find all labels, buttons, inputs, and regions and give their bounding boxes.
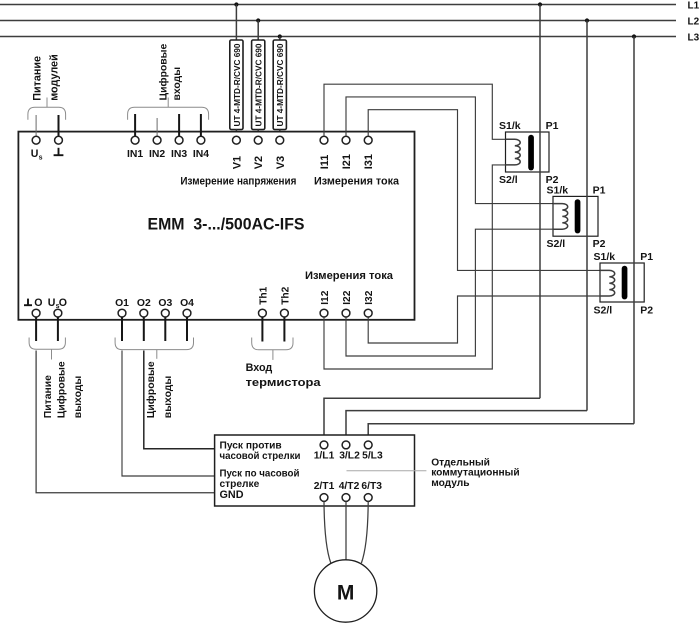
wire O1 to start clockwise [122, 351, 215, 477]
fuse F1 [230, 40, 243, 130]
svg-text:3/L2: 3/L2 [339, 450, 360, 461]
label Пуск против часовой стрелки [220, 440, 301, 462]
svg-text:O: O [34, 297, 42, 309]
svg-text:Th2: Th2 [280, 286, 291, 304]
wire stub IN3 [178, 114, 180, 136]
wire 6/T3 to motor [361, 501, 368, 563]
terminal IN3 [175, 136, 183, 144]
wire fuse F2 to V2 [257, 130, 259, 137]
terminal I31 [364, 136, 372, 144]
terminal O1 [118, 309, 126, 317]
terminal I22 [342, 309, 350, 317]
motor M1 [314, 560, 376, 622]
svg-text:IN1: IN1 [127, 149, 143, 160]
terminal ground [55, 136, 63, 144]
wire stub IN2 [156, 118, 158, 136]
terminal ground-out [32, 309, 40, 317]
svg-text:выходы: выходы [73, 376, 84, 419]
wire fuse F1 to V1 [235, 130, 237, 137]
terminal 3/L2 [342, 441, 350, 449]
brace group digital outputs [115, 338, 193, 350]
wire stub IN4 [200, 114, 202, 136]
svg-text:UT 4-MTD-R/CVC 690: UT 4-MTD-R/CVC 690 [232, 43, 242, 126]
wire stub ground terminal [58, 115, 60, 136]
svg-text:P1: P1 [546, 120, 559, 132]
svg-text:Измерения тока: Измерения тока [305, 270, 394, 282]
wire L3 primary drop through CT3 [633, 37, 635, 424]
wire stub Th2 [283, 317, 285, 342]
terminal Th1 [259, 309, 267, 317]
svg-text:Вход: Вход [246, 362, 273, 374]
wire fuse F3 to V3 [279, 130, 281, 137]
svg-text:S2/l: S2/l [499, 174, 518, 186]
svg-text:4/T2: 4/T2 [339, 481, 360, 492]
current transformer T3 box [600, 263, 644, 302]
svg-text:1/L1: 1/L1 [314, 450, 335, 461]
label Питание Цифровые выходы [43, 361, 84, 418]
svg-text:выходы: выходы [163, 376, 174, 419]
svg-text:V1: V1 [231, 156, 243, 169]
terminal 4/T2 [342, 494, 350, 502]
terminal IN4 [197, 136, 205, 144]
svg-text:I31: I31 [363, 154, 375, 169]
junction dot L3-CT tap [632, 34, 636, 38]
wire CT1 S2/l to I12 [324, 165, 506, 369]
svg-text:O2: O2 [137, 298, 151, 309]
wire stub O4 [186, 317, 188, 341]
svg-text:IN4: IN4 [193, 149, 209, 160]
svg-text:V3: V3 [275, 156, 287, 169]
svg-text:UT 4-MTD-R/CVC 690: UT 4-MTD-R/CVC 690 [275, 43, 285, 126]
fuse F2 [252, 40, 265, 130]
svg-text:I11: I11 [319, 155, 331, 170]
junction dot L1-fuse tap [234, 2, 238, 6]
svg-text:V2: V2 [253, 156, 265, 169]
svg-text:Отдельный: Отдельный [431, 457, 490, 468]
current transformer T2 box [553, 196, 598, 236]
svg-text:P1: P1 [640, 251, 653, 263]
wire stub O3 [164, 317, 166, 341]
relay module U1 EMM box [18, 132, 414, 320]
svg-text:5/L3: 5/L3 [362, 450, 383, 461]
svg-text:EMM 3-.../500AC-IFS: EMM 3-.../500AC-IFS [148, 215, 305, 234]
svg-text:P2: P2 [640, 304, 653, 316]
svg-text:S2/l: S2/l [594, 304, 613, 316]
svg-text:Питание: Питание [43, 375, 54, 418]
terminal V3 [276, 136, 284, 144]
svg-text:UT 4-MTD-R/CVC 690: UT 4-MTD-R/CVC 690 [254, 43, 264, 126]
fuse F3 [273, 40, 286, 130]
svg-text:IN2: IN2 [149, 149, 165, 160]
svg-text:S2/l: S2/l [547, 238, 566, 250]
brace group digital inputs [128, 107, 209, 120]
wire ground-out to GND [36, 351, 215, 493]
wire L2 primary to 3/L2 [346, 411, 587, 441]
svg-text:Th1: Th1 [258, 286, 269, 304]
wire L2 to fuse F2 [257, 21, 259, 41]
wire L1 primary drop through CT1 [539, 5, 541, 399]
junction dot L2-CT tap [585, 18, 589, 22]
label Цифровые выходы [145, 361, 174, 418]
wire CT3 S2/l to I32 [368, 296, 600, 343]
svg-text:термистора: термистора [246, 377, 322, 389]
wire CT2 S2/l to I22 [346, 229, 553, 356]
wire O2 to start counter-clockwise [144, 351, 215, 449]
wire stub O1 [121, 317, 123, 341]
junction dot L2-fuse tap [256, 18, 260, 22]
svg-text:O: O [59, 297, 67, 309]
wire L3 primary to 5/L3 [368, 424, 634, 441]
svg-text:Пуск против: Пуск против [220, 440, 282, 451]
terminal UsO [54, 309, 62, 317]
label Питание модулей [31, 54, 60, 101]
svg-text:Цифровые: Цифровые [145, 361, 157, 418]
svg-text:модуль: модуль [431, 478, 469, 489]
switching module K1 box [215, 435, 415, 506]
svg-text:GND: GND [220, 489, 244, 501]
terminal V2 [254, 136, 262, 144]
label ground symbol [54, 148, 64, 155]
leader line to module label [347, 470, 427, 472]
junction dot L1-CT tap [538, 2, 542, 6]
label Вход термистора [246, 362, 322, 389]
wire stub Th1 [261, 317, 263, 342]
label Пуск по часовой стрелке [220, 468, 300, 490]
wire 4/T2 to motor [345, 501, 347, 560]
current transformer T1 box [506, 132, 550, 172]
terminal IN1 [131, 136, 139, 144]
svg-text:P2: P2 [593, 238, 606, 250]
wire stub Us [35, 115, 37, 136]
brace group power supply terminals [28, 107, 66, 120]
terminal 2/T1 [320, 494, 328, 502]
svg-text:S1/k: S1/k [594, 251, 616, 263]
svg-text:IN3: IN3 [171, 149, 187, 160]
svg-text:U: U [48, 297, 56, 309]
brace group thermistor input [252, 338, 293, 350]
terminal I21 [342, 136, 350, 144]
wire L1 to fuse F1 [235, 5, 237, 41]
svg-text:Питание: Питание [31, 56, 43, 101]
junction dot L3-fuse tap [278, 34, 282, 38]
svg-text:I32: I32 [364, 290, 375, 304]
svg-text:M: M [337, 581, 355, 604]
svg-text:O3: O3 [158, 298, 172, 309]
wire L1 primary to 1/L1 [324, 398, 540, 441]
terminal 5/L3 [364, 441, 372, 449]
wire stub IN1 [134, 114, 136, 136]
terminal 6/T3 [364, 494, 372, 502]
svg-text:S1/k: S1/k [547, 185, 569, 197]
svg-text:Измерение напряжения: Измерение напряжения [180, 176, 296, 188]
svg-text:I12: I12 [320, 290, 331, 304]
terminal V1 [233, 136, 241, 144]
svg-text:Пуск по часовой: Пуск по часовой [220, 468, 300, 479]
terminal O4 [183, 309, 191, 317]
terminal O2 [140, 309, 148, 317]
svg-text:S1/k: S1/k [499, 120, 521, 132]
svg-text:P1: P1 [593, 185, 606, 197]
terminal I32 [364, 309, 372, 317]
label Цифровые входы [157, 43, 182, 100]
label Отдельный коммутационный модуль [431, 457, 519, 489]
wire stub O2 [143, 317, 145, 341]
wire I11 to CT1 S1/k [324, 84, 506, 139]
terminal O3 [161, 309, 169, 317]
wire I31 to CT3 S1/k [368, 110, 600, 271]
svg-text:L1: L1 [688, 0, 700, 11]
wire stub UsO [57, 317, 59, 341]
svg-text:L2: L2 [688, 16, 700, 27]
net L1 busbar [0, 4, 676, 6]
svg-text:I21: I21 [341, 154, 353, 169]
svg-text:6/T3: 6/T3 [361, 481, 382, 492]
svg-text:I22: I22 [342, 290, 353, 304]
svg-text:U: U [31, 148, 39, 160]
svg-text:часовой стрелки: часовой стрелки [220, 451, 301, 462]
wire L2 primary drop through CT2 [586, 21, 588, 411]
terminal IN2 [153, 136, 161, 144]
svg-text:Цифровые: Цифровые [157, 43, 169, 100]
svg-text:модулей: модулей [49, 54, 61, 101]
terminal Us [32, 136, 40, 144]
svg-text:входы: входы [172, 67, 183, 101]
svg-text:2/T1: 2/T1 [314, 481, 335, 492]
net L2 busbar [0, 20, 676, 22]
svg-text:s: s [39, 154, 43, 161]
svg-text:O1: O1 [115, 298, 129, 309]
net L3 busbar [0, 36, 676, 38]
wire 2/T1 to motor [324, 501, 331, 563]
wire I21 to CT2 S1/k [346, 97, 553, 204]
svg-text:Измерения тока: Измерения тока [314, 176, 400, 188]
label UsO [48, 297, 67, 310]
svg-text:Цифровые: Цифровые [56, 361, 68, 418]
terminal 1/L1 [320, 441, 328, 449]
svg-text:O4: O4 [180, 298, 194, 309]
label ground-out [24, 297, 42, 309]
brace group power digital outputs [29, 338, 65, 350]
wire stub ground-out [35, 317, 37, 341]
terminal Th2 [281, 309, 289, 317]
svg-text:L3: L3 [688, 32, 700, 43]
wire L3 to fuse F3 [279, 37, 281, 41]
terminal I12 [320, 309, 328, 317]
label Us [31, 148, 43, 161]
terminal I11 [320, 136, 328, 144]
